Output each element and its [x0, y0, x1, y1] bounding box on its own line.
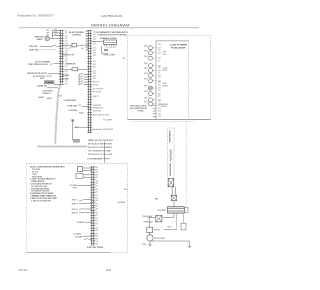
- svg-text:J12: J12: [64, 71, 67, 73]
- svg-text:J12: J12: [64, 83, 67, 85]
- svg-text:J2: J2: [158, 49, 161, 51]
- svg-text:AND USER INTERFACE: AND USER INTERFACE: [130, 107, 148, 110]
- svg-text:EVAP FAN THERM: EVAP FAN THERM: [87, 246, 104, 249]
- svg-text:ADJ FF DRAWER: ADJ FF DRAWER: [35, 60, 51, 63]
- svg-text:DR SW: DR SW: [93, 84, 98, 86]
- svg-text:J12: J12: [64, 50, 67, 52]
- svg-text:J31: J31: [93, 47, 97, 49]
- svg-text:OR ORANGE RD RED: OR ORANGE RD RED: [88, 150, 112, 153]
- svg-text:J51: J51: [93, 78, 97, 80]
- svg-text:J2: J2: [122, 58, 125, 60]
- svg-text:J12: J12: [64, 48, 67, 50]
- svg-text:WIRING DIAGRAM: WIRING DIAGRAM: [91, 23, 130, 27]
- svg-text:FREEZER DOOR SWITCH: FREEZER DOOR SWITCH: [27, 73, 48, 75]
- svg-text:J21: J21: [158, 93, 162, 95]
- svg-text:FF DOOR SW: FF DOOR SW: [33, 76, 45, 78]
- svg-text:HI SW: HI SW: [75, 237, 83, 239]
- svg-text:TO DISP: TO DISP: [103, 119, 113, 121]
- svg-text:FF FAN: FF FAN: [62, 78, 69, 81]
- svg-text:EI27BS16JS: EI27BS16JS: [101, 14, 122, 18]
- svg-text:J4 BK: J4 BK: [118, 201, 127, 204]
- svg-text:J11: J11: [158, 108, 162, 110]
- svg-text:J12: J12: [64, 45, 67, 47]
- svg-text:J51: J51: [93, 70, 97, 72]
- svg-text:FRZ FAN: FRZ FAN: [62, 74, 70, 77]
- svg-text:WH WHITE YL YELLOW: WH WHITE YL YELLOW: [88, 154, 113, 156]
- svg-text:SOLENOID: SOLENOID: [170, 162, 172, 176]
- svg-text:YL: YL: [50, 64, 53, 66]
- svg-text:J21: J21: [158, 44, 162, 46]
- svg-text:J51: J51: [93, 75, 97, 77]
- svg-text:J31: J31: [93, 55, 97, 57]
- svg-text:J51: J51: [93, 73, 97, 75]
- svg-text:J12: J12: [64, 81, 67, 83]
- svg-text:DEFROST HTR: DEFROST HTR: [62, 54, 75, 56]
- svg-text:J12: J12: [64, 61, 67, 63]
- svg-text:J2: J2: [158, 85, 161, 87]
- svg-text:LOW POWER: LOW POWER: [170, 45, 188, 47]
- svg-text:J12: J12: [64, 66, 67, 68]
- svg-text:SHIELD: SHIELD: [43, 93, 52, 95]
- svg-text:THERM BK: THERM BK: [66, 64, 76, 66]
- svg-text:FRZ DOOR HTR: FRZ DOOR HTR: [93, 89, 104, 91]
- svg-text:SIGNAL GND 5V RTN: SIGNAL GND 5V RTN: [90, 114, 110, 117]
- svg-text:J5: J5: [124, 189, 128, 191]
- svg-text:SW 4: SW 4: [72, 211, 78, 214]
- svg-text:J2: J2: [158, 82, 161, 84]
- svg-text:MOLD HTR: MOLD HTR: [93, 110, 102, 112]
- svg-text:J21: J21: [158, 75, 162, 77]
- svg-text:WATER: WATER: [162, 85, 168, 88]
- svg-text:J21: J21: [158, 58, 162, 60]
- svg-text:COMP: COMP: [157, 210, 168, 212]
- svg-text:CONDENSER: CONDENSER: [64, 100, 77, 102]
- svg-text:LAMPS: LAMPS: [37, 38, 44, 41]
- svg-text:CONTROL: CONTROL: [72, 34, 82, 36]
- svg-text:SW 1: SW 1: [72, 199, 79, 201]
- svg-text:ST: ST: [167, 227, 172, 229]
- svg-text:DISPENSER: DISPENSER: [170, 130, 172, 143]
- svg-text:CON FAN: CON FAN: [68, 109, 77, 112]
- svg-text:J2: J2: [158, 101, 161, 103]
- svg-text:SW 3: SW 3: [72, 209, 78, 211]
- svg-text:J12: J12: [64, 43, 67, 45]
- svg-text:J11: J11: [158, 113, 162, 115]
- svg-text:J31: J31: [93, 52, 97, 54]
- svg-text:PADDLE: PADDLE: [161, 105, 168, 108]
- svg-text:J21: J21: [93, 34, 97, 36]
- svg-text:J21: J21: [158, 53, 162, 55]
- svg-text:FF DOOR SW: FF DOOR SW: [93, 92, 101, 94]
- svg-text:J21: J21: [158, 48, 162, 50]
- svg-text:PCB ASSY: PCB ASSY: [171, 46, 187, 49]
- svg-text:WATER VALVE: WATER VALVE: [93, 107, 104, 110]
- svg-text:J2: J2: [158, 67, 161, 69]
- svg-text:J21: J21: [93, 44, 97, 46]
- svg-text:LO MED: LO MED: [73, 234, 82, 236]
- svg-text:J21: J21: [158, 88, 162, 90]
- svg-text:J2: J2: [158, 96, 161, 98]
- svg-text:DISP LT: DISP LT: [93, 96, 100, 98]
- svg-text:ICEMAKER: ICEMAKER: [93, 104, 102, 107]
- svg-text:COMP FAN: COMP FAN: [67, 104, 78, 107]
- svg-text:J12: J12: [64, 38, 67, 40]
- svg-text:J31: J31: [93, 50, 97, 52]
- svg-text:J12: J12: [64, 30, 67, 32]
- svg-text:J21: J21: [93, 36, 97, 38]
- svg-text:TO DISPENSER: TO DISPENSER: [87, 159, 103, 161]
- svg-text:SCHEMATIC SHOWN: SCHEMATIC SHOWN: [100, 37, 117, 40]
- svg-text:SW 2: SW 2: [72, 203, 79, 205]
- svg-text:Publication No. 5995545377: Publication No. 5995545377: [18, 13, 55, 17]
- svg-text:AA1: AA1: [79, 111, 84, 114]
- svg-text:J12: J12: [64, 58, 67, 60]
- svg-text:10/11: 10/11: [19, 268, 29, 272]
- svg-text:CONTROLS IN OFF POSITION: CONTROLS IN OFF POSITION: [98, 34, 128, 36]
- svg-text:J2: J2: [158, 90, 161, 92]
- svg-text:FRONT BEZEL DISPLAY: FRONT BEZEL DISPLAY: [130, 104, 148, 107]
- svg-text:BU BLUE GN GREEN: BU BLUE GN GREEN: [88, 147, 113, 149]
- svg-text:J11: J11: [158, 116, 162, 118]
- svg-text:TEMP SENSOR ASSY: TEMP SENSOR ASSY: [28, 63, 49, 66]
- svg-text:BK BLACK BR BROWN: BK BLACK BR BROWN: [88, 143, 113, 146]
- svg-text:J2: J2: [158, 77, 161, 79]
- svg-text:NEUTRAL BK: NEUTRAL BK: [103, 128, 114, 131]
- svg-text:LINE IN: LINE IN: [37, 85, 48, 87]
- svg-text:RUN CAP: RUN CAP: [155, 237, 166, 240]
- svg-text:RELAY: RELAY: [143, 215, 155, 218]
- svg-text:J11: J11: [158, 105, 162, 107]
- svg-text:J12: J12: [64, 35, 67, 37]
- svg-text:SW NO: SW NO: [29, 46, 38, 48]
- svg-text:J12: J12: [64, 40, 67, 42]
- svg-text:22: 22: [106, 268, 111, 272]
- svg-text:SW NC: SW NC: [29, 49, 41, 51]
- svg-text:J11: J11: [158, 111, 162, 113]
- svg-text:6. SEE TECH SHEET INFO: 6. SEE TECH SHEET INFO: [31, 200, 52, 202]
- svg-text:PCBA: PCBA: [138, 110, 145, 113]
- svg-text:J2: J2: [158, 72, 161, 74]
- svg-text:J2: J2: [158, 61, 161, 63]
- svg-text:DISP CONN: DISP CONN: [104, 55, 116, 57]
- svg-text:OVERLOAD: OVERLOAD: [144, 220, 154, 223]
- svg-text:J12: J12: [64, 33, 67, 35]
- svg-text:J21: J21: [93, 39, 97, 41]
- svg-text:WIRE COLOR CODE KEY: WIRE COLOR CODE KEY: [88, 140, 114, 142]
